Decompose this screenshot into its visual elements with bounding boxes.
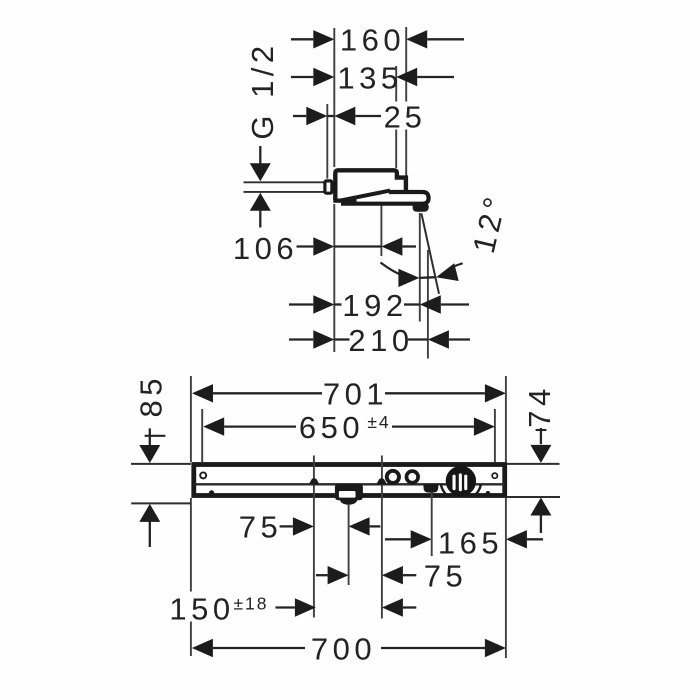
button circle left <box>387 471 399 483</box>
supply pipe lower line <box>244 191 326 193</box>
spout tab white slot <box>339 491 356 498</box>
groove line <box>194 483 504 485</box>
svg-text:701: 701 <box>323 377 388 412</box>
dim G1/2 vertical arrows <box>250 146 271 228</box>
spout body bottom edge <box>333 199 356 203</box>
dim 150 +-18 <box>169 591 416 626</box>
svg-text:2: 2 <box>384 99 401 134</box>
angle arc leader <box>381 263 404 276</box>
screw hole right <box>492 473 497 478</box>
dim 160 <box>291 23 464 58</box>
screw hole left <box>200 472 206 478</box>
G1/2 connection nub <box>325 181 332 193</box>
dim 75 second <box>316 559 467 594</box>
dim 135 <box>291 60 454 95</box>
extension line x=420 vertical reference <box>419 213 421 322</box>
extension line x=406 <box>405 27 407 176</box>
dim 701 <box>192 377 506 412</box>
svg-text:160: 160 <box>340 23 405 58</box>
svg-text:85: 85 <box>133 374 168 417</box>
angle chord <box>419 276 436 279</box>
extension line x=396 <box>395 66 397 168</box>
small dot right <box>486 491 491 496</box>
knob grip stripes <box>453 473 468 491</box>
hook under bar <box>424 484 439 493</box>
svg-text:165: 165 <box>438 525 503 560</box>
svg-text:±4: ±4 <box>367 412 390 432</box>
svg-text:5: 5 <box>405 99 422 134</box>
svg-text:±18: ±18 <box>233 594 268 614</box>
extension line x=495 <box>494 409 496 462</box>
dim 210 <box>289 323 470 358</box>
svg-text:700: 700 <box>311 631 376 666</box>
angle leader right <box>455 263 463 266</box>
dim 85 assembly <box>139 428 165 547</box>
dim 106 <box>233 231 416 266</box>
extension line x=327 <box>326 104 328 179</box>
dim 74 assembly <box>530 428 551 533</box>
spout tab black body <box>335 484 363 501</box>
drip nub <box>413 204 429 212</box>
connection extension line x=314 <box>313 456 315 618</box>
dim 650 +-4 <box>203 410 495 445</box>
extension line x=506 below bar <box>505 498 507 658</box>
extension line x=334 upper <box>333 28 335 167</box>
hook extension line x=432 <box>431 490 433 556</box>
knob disc <box>446 466 476 496</box>
spout bar outline <box>341 192 429 204</box>
button circle right <box>407 471 419 483</box>
svg-text:75: 75 <box>239 510 282 545</box>
wall line left <box>131 463 191 465</box>
svg-text:150: 150 <box>169 591 234 626</box>
svg-text:192: 192 <box>342 288 407 323</box>
extension line x=191 below bar (broken at 150 text) <box>190 498 192 656</box>
spout tab bottom tongue <box>340 499 358 505</box>
svg-text:74: 74 <box>522 384 557 427</box>
extension line x=428 <box>427 250 429 359</box>
bar bottom extension right <box>507 496 560 498</box>
wall line right <box>507 463 560 465</box>
svg-text:75: 75 <box>424 559 467 594</box>
dim 25 <box>293 99 422 134</box>
knob base circle arcs <box>441 460 482 501</box>
extension line x=381 below spout <box>380 206 382 257</box>
dim 165 <box>385 525 543 560</box>
svg-text:G 1/2: G 1/2 <box>245 41 280 139</box>
angle arrow left <box>398 269 419 287</box>
svg-text:106: 106 <box>233 231 298 266</box>
spout internal diagonal 12deg <box>338 191 390 201</box>
angle arrow right <box>434 263 459 286</box>
dim 75 first <box>239 510 381 545</box>
supply pipe upper line <box>244 181 326 183</box>
bar body <box>194 465 505 496</box>
dim 192 <box>289 288 469 323</box>
connection bump left <box>309 478 319 484</box>
svg-text:210: 210 <box>348 323 413 358</box>
spout bottom level line left <box>131 502 191 504</box>
svg-text:650: 650 <box>299 410 364 445</box>
tilted stream line 12deg <box>421 213 439 293</box>
spout body outline <box>335 170 406 200</box>
extension line x=191 above bar <box>190 376 192 462</box>
spout center extension line <box>348 504 350 585</box>
extension line x=202 <box>201 409 203 462</box>
connection bump right <box>376 478 386 484</box>
extension line x=506 above bar <box>505 376 507 462</box>
small dot left <box>209 490 214 495</box>
svg-text:135: 135 <box>337 60 402 95</box>
connection extension line x=382 <box>381 456 383 619</box>
extension line x=334 lower <box>333 204 335 352</box>
dim 700 <box>192 631 506 666</box>
